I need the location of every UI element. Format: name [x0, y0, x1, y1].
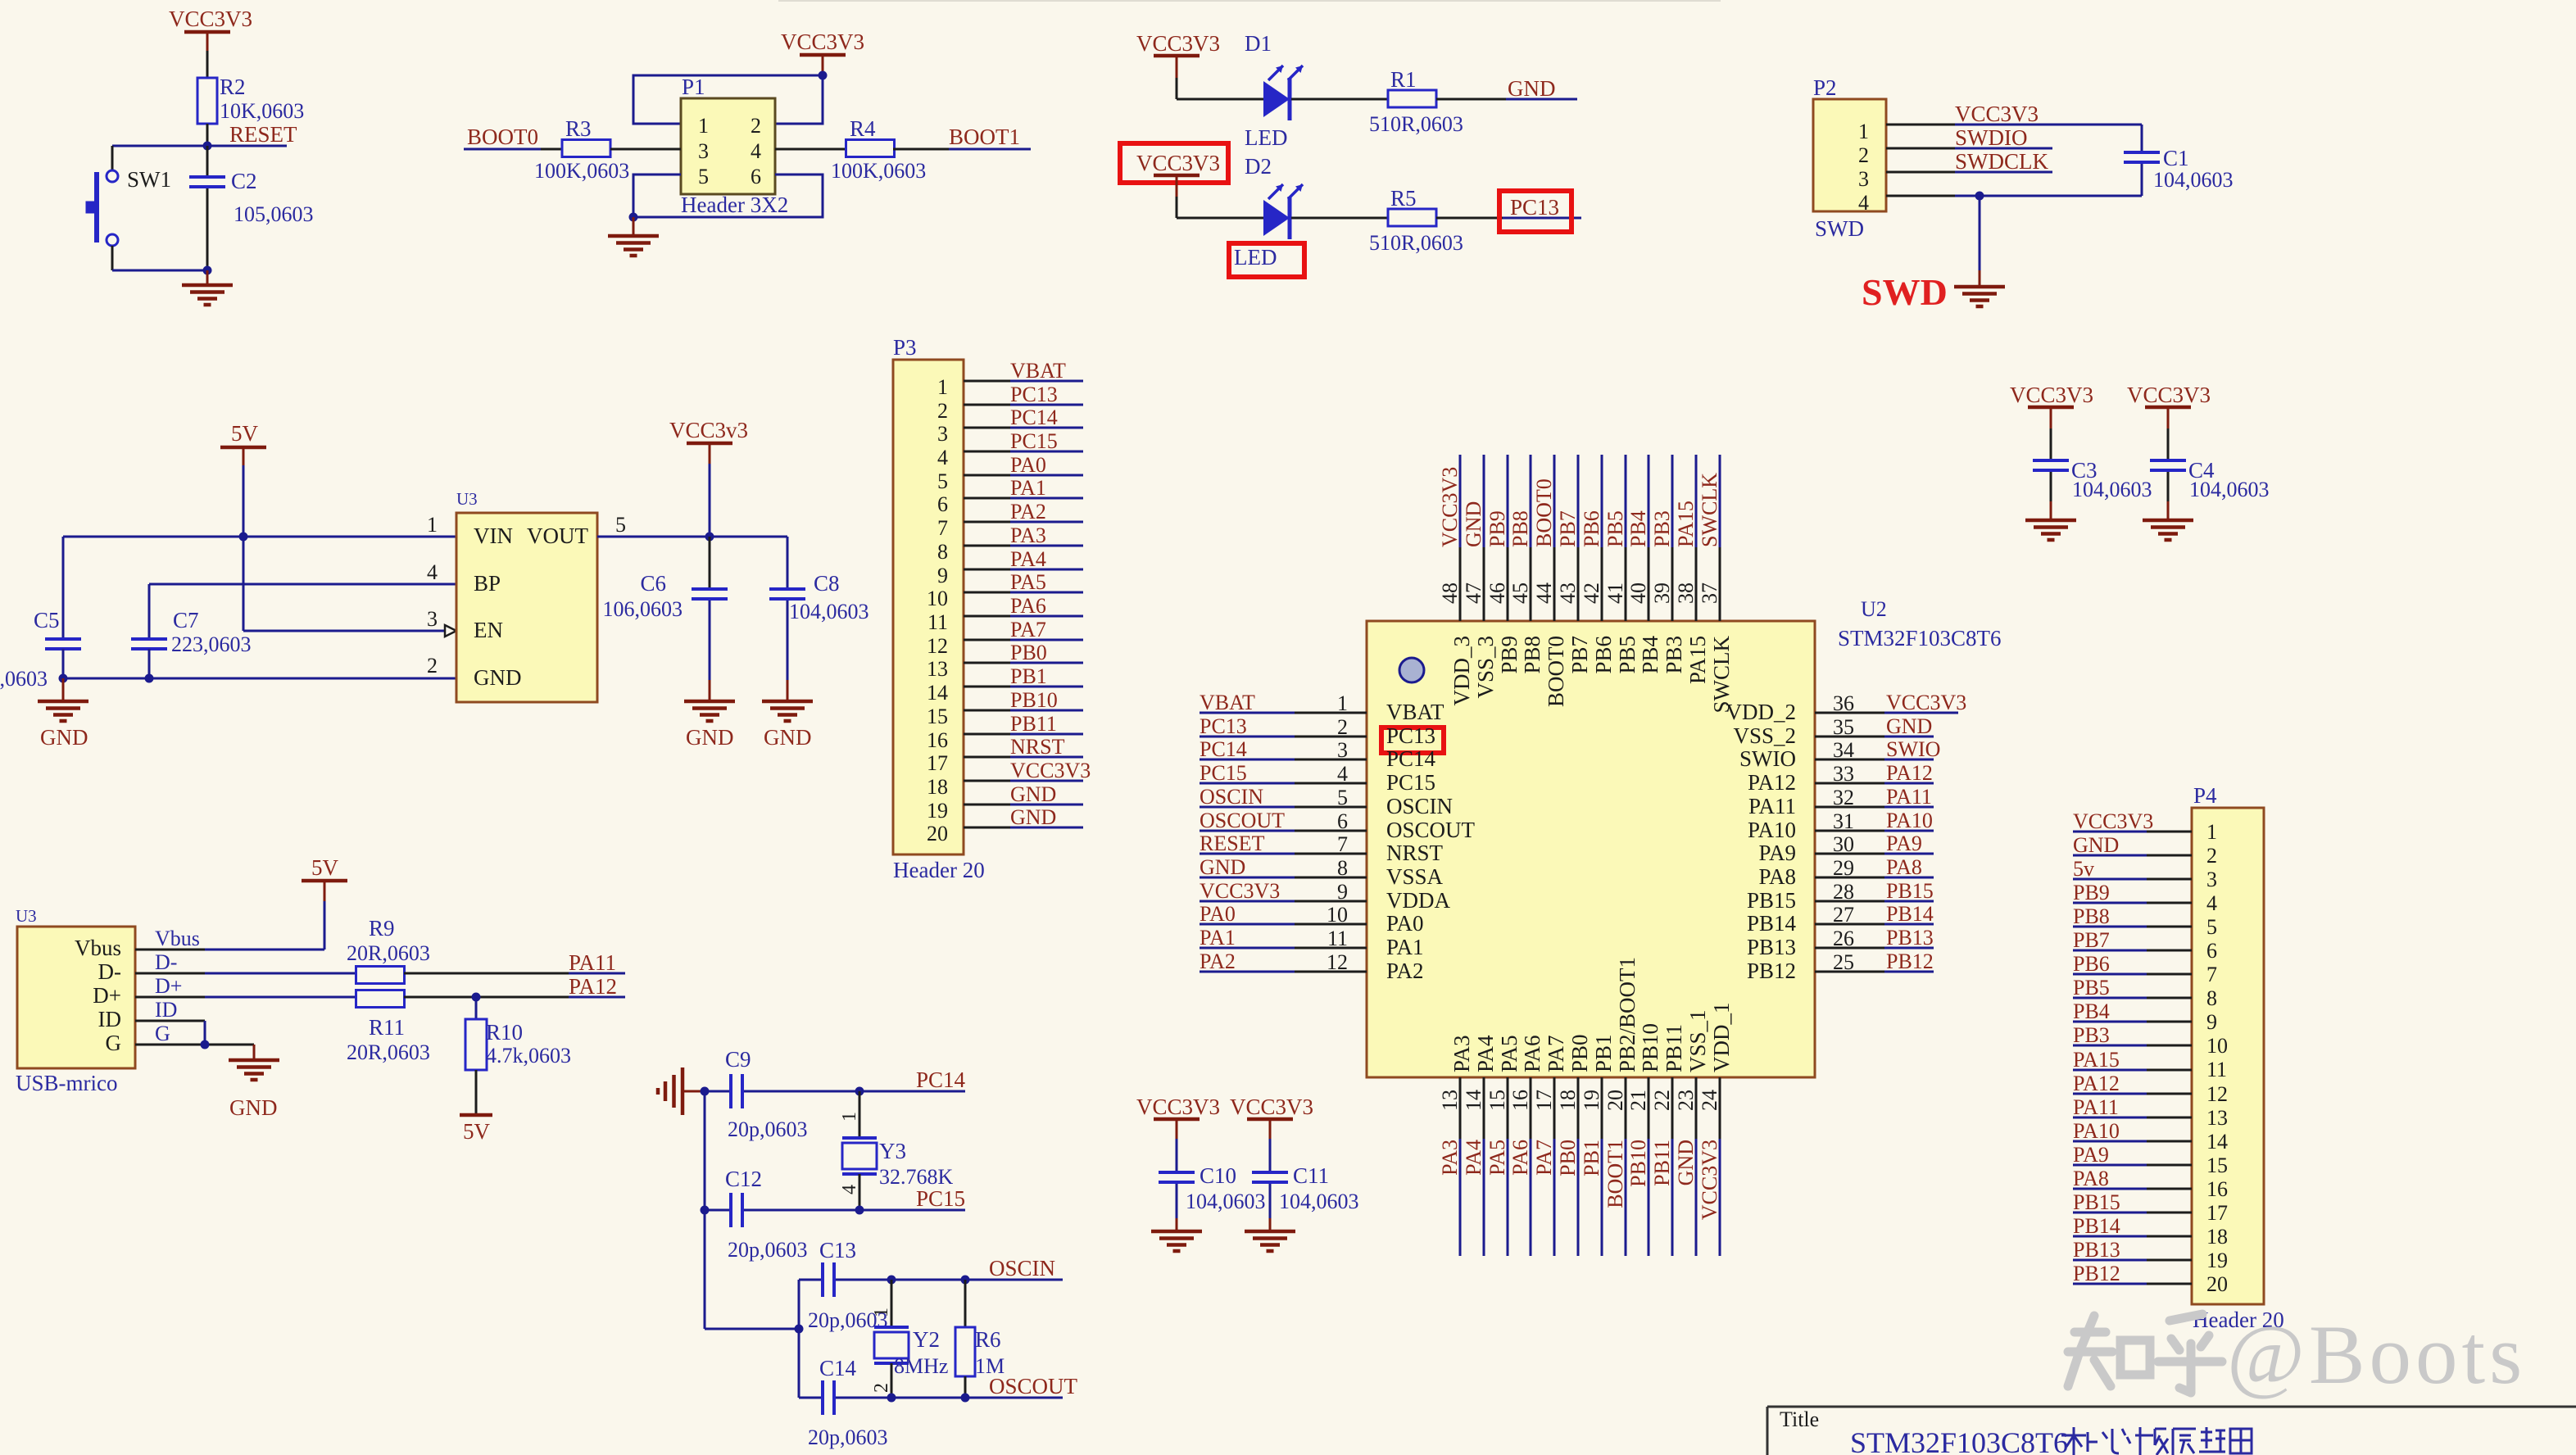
- regulator U3: [427, 489, 626, 702]
- svg-text:23: 23: [1674, 1090, 1698, 1111]
- capacitor C3: [2033, 428, 2152, 501]
- svg-text:PA12: PA12: [1748, 770, 1796, 795]
- svg-text:14: 14: [2206, 1130, 2228, 1154]
- svg-text:20: 20: [927, 822, 948, 845]
- wire P4 pin 18 PB14: [2073, 1235, 2192, 1238]
- svg-text:1: 1: [427, 513, 438, 537]
- power VCC3V3 (D1): [1136, 31, 1220, 78]
- wire RESET net: [112, 124, 287, 146]
- svg-text:18: 18: [1556, 1090, 1580, 1111]
- svg-text:3: 3: [1858, 167, 1869, 191]
- svg-text:3: 3: [937, 422, 948, 446]
- svg-text:PB5: PB5: [1603, 510, 1627, 547]
- svg-text:15: 15: [1485, 1090, 1509, 1111]
- junction P1 VCC: [819, 71, 828, 80]
- top artifact line: [778, 0, 1721, 2]
- wire U2 pin 11 PA1: [1200, 947, 1367, 950]
- power VCC3V3 (D2): [1136, 151, 1220, 197]
- svg-text:PA10: PA10: [2073, 1119, 2120, 1143]
- junction Y3 bottom: [855, 1206, 864, 1215]
- svg-text:R5: R5: [1390, 186, 1417, 211]
- svg-text:9: 9: [937, 564, 948, 587]
- wire U2 pin 44 BOOT0: [1553, 455, 1556, 621]
- MCU U2 (STM32F103C8T6) body: [1367, 597, 2002, 1077]
- wire D+ to R11: [135, 996, 356, 999]
- wire R3 to P1 pin3: [610, 148, 681, 151]
- wire U2 pin 38 PA15: [1695, 455, 1698, 621]
- wire U2 pin 25 PB12: [1815, 971, 1934, 973]
- svg-text:PB13: PB13: [2073, 1238, 2120, 1262]
- svg-text:NRST: NRST: [1386, 841, 1444, 865]
- svg-text:OSCOUT: OSCOUT: [1386, 818, 1476, 842]
- svg-text:PB7: PB7: [2073, 928, 2110, 952]
- svg-text:PB6: PB6: [1591, 636, 1616, 674]
- junction P2 GND: [1975, 192, 1984, 201]
- svg-text:PA7: PA7: [1532, 1140, 1556, 1176]
- svg-text:C5: C5: [34, 608, 60, 632]
- svg-text:VCC3V3: VCC3V3: [1698, 1140, 1721, 1220]
- wire P2 pin1 VCC3V3: [1886, 124, 2142, 126]
- wire U2 pin 33 PA12: [1815, 782, 1934, 785]
- LED D2: [1234, 154, 1303, 270]
- svg-text:PB13: PB13: [1747, 935, 1796, 959]
- svg-text:PB0: PB0: [1556, 1140, 1580, 1176]
- wire P3 pin 20 GND: [964, 827, 1083, 829]
- svg-text:2: 2: [427, 654, 438, 678]
- wire OSCOUT net: [799, 1397, 1063, 1399]
- svg-text:R3: R3: [565, 116, 592, 141]
- svg-text:105,0603: 105,0603: [234, 202, 314, 226]
- svg-text:PA7: PA7: [1010, 618, 1046, 641]
- wire U2 pin 48 VCC3V3: [1459, 455, 1462, 621]
- svg-text:20R,0603: 20R,0603: [347, 1040, 430, 1064]
- svg-text:3: 3: [698, 139, 709, 163]
- wire P4 pin 3 5v: [2073, 878, 2192, 881]
- wire U2 pin 34 SWIO: [1815, 759, 1934, 761]
- svg-text:SWCLK: SWCLK: [1709, 635, 1734, 713]
- svg-text:G: G: [106, 1031, 122, 1055]
- wire G to GND: [135, 1044, 254, 1046]
- ground (reset): [182, 270, 233, 305]
- wire P4 pin 14 PA10: [2073, 1140, 2192, 1143]
- svg-text:PA15: PA15: [1674, 501, 1698, 547]
- svg-text:32: 32: [1833, 786, 1854, 809]
- svg-text:PA7: PA7: [1544, 1035, 1568, 1072]
- svg-text:35: 35: [1833, 715, 1854, 739]
- svg-text:PB11: PB11: [1010, 712, 1057, 736]
- svg-text:12: 12: [1327, 950, 1348, 974]
- svg-text:USB-mrico: USB-mrico: [16, 1071, 118, 1095]
- svg-text:3: 3: [1337, 738, 1348, 762]
- svg-text:PA0: PA0: [1386, 911, 1424, 936]
- svg-text:C9: C9: [725, 1047, 751, 1072]
- svg-text:P1: P1: [682, 75, 705, 99]
- svg-text:LED: LED: [1234, 245, 1277, 270]
- wire U2 pin 42 PB6: [1601, 455, 1603, 621]
- junction VOUT: [705, 533, 714, 542]
- svg-text:R6: R6: [975, 1327, 1001, 1352]
- svg-text:43: 43: [1556, 582, 1580, 604]
- svg-text:19: 19: [2206, 1249, 2228, 1272]
- wire U2 pin 40 PB4: [1648, 455, 1650, 621]
- ground (C4): [2143, 501, 2193, 540]
- capacitor C7: [131, 608, 252, 678]
- svg-text:D+: D+: [155, 974, 182, 998]
- svg-text:12: 12: [2206, 1082, 2228, 1106]
- svg-text:PA0: PA0: [1200, 902, 1236, 926]
- svg-text:21: 21: [1626, 1090, 1650, 1111]
- svg-text:6: 6: [937, 492, 948, 516]
- svg-text:C12: C12: [725, 1167, 762, 1191]
- svg-text:BOOT0: BOOT0: [1544, 636, 1568, 707]
- svg-text:PB15: PB15: [1747, 888, 1796, 913]
- svg-text:VSS_2: VSS_2: [1733, 723, 1796, 748]
- svg-text:G: G: [155, 1022, 170, 1045]
- svg-text:BOOT0: BOOT0: [467, 125, 538, 149]
- power VCC3v3 (regulator): [669, 418, 748, 537]
- wire U2 pin 6 OSCOUT: [1200, 830, 1367, 832]
- capacitor C14: [808, 1356, 888, 1449]
- svg-text:PA8: PA8: [1886, 855, 1922, 879]
- connector U3 (USB-mrico): [16, 906, 135, 1095]
- svg-text:1: 1: [871, 1308, 892, 1317]
- svg-text:VCC3V3: VCC3V3: [781, 29, 864, 54]
- wire P2 pin4 GND: [1886, 195, 2142, 197]
- svg-text:VCC3V3: VCC3V3: [1136, 1095, 1220, 1119]
- junction P1 GND: [629, 213, 638, 222]
- svg-text:33: 33: [1833, 762, 1854, 786]
- power VCC3V3 (C11): [1230, 1095, 1313, 1139]
- power 5V (USB): [302, 855, 347, 901]
- junction C5 GND: [59, 674, 68, 683]
- svg-text:PB10: PB10: [1638, 1023, 1662, 1072]
- junction RESET: [203, 142, 212, 151]
- resistor R5: [1369, 186, 1463, 255]
- wire P1 pin4 to R4: [775, 148, 846, 151]
- svg-text:LED: LED: [1245, 125, 1287, 150]
- wire R9 to PA11: [404, 972, 625, 975]
- svg-text:GND: GND: [1674, 1140, 1698, 1185]
- svg-text:14: 14: [1462, 1090, 1485, 1111]
- wire R5 to PC13 label: [1436, 217, 1581, 220]
- svg-text:2: 2: [2206, 844, 2217, 868]
- wire U2 pin 30 PA9: [1815, 853, 1934, 855]
- wire P4 pin 6 PB7: [2073, 950, 2192, 952]
- resistor R10: [465, 997, 571, 1115]
- svg-text:22: 22: [1650, 1090, 1674, 1111]
- svg-text:3: 3: [2206, 868, 2217, 891]
- svg-text:2: 2: [871, 1383, 892, 1393]
- svg-text:U3: U3: [456, 489, 478, 509]
- svg-text:1: 1: [1337, 691, 1348, 715]
- wire GND net (regulator): [63, 678, 456, 680]
- svg-text:2: 2: [1858, 143, 1869, 167]
- wire U2 pin 24 VCC3V3: [1719, 1077, 1721, 1256]
- svg-text:PB5: PB5: [2073, 976, 2110, 999]
- svg-text:39: 39: [1650, 582, 1674, 604]
- svg-text:PA2: PA2: [1010, 500, 1046, 524]
- wire P4 pin 8 PB5: [2073, 997, 2192, 999]
- svg-text:PA11: PA11: [2073, 1095, 2119, 1119]
- svg-text:BP: BP: [474, 571, 501, 596]
- svg-text:VCC3V3: VCC3V3: [1230, 1095, 1313, 1119]
- ground (oscillator, left): [658, 1067, 705, 1115]
- svg-text:C14: C14: [819, 1356, 857, 1380]
- wire R11 to PA12: [404, 996, 625, 999]
- wire U2 pin 4 PC15: [1200, 782, 1367, 785]
- svg-text:8: 8: [2206, 986, 2217, 1010]
- svg-text:PA10: PA10: [1886, 809, 1933, 832]
- svg-text:4: 4: [839, 1185, 860, 1194]
- wire P3 pin 7 PA2: [964, 521, 1083, 524]
- svg-text:C8: C8: [814, 571, 840, 596]
- svg-text:7: 7: [2206, 963, 2217, 986]
- wire P3 pin 1 VBAT: [964, 380, 1083, 383]
- annotation box LED: [1229, 243, 1304, 277]
- svg-text:PA12: PA12: [1886, 761, 1933, 785]
- wire U2 pin 32 PA11: [1815, 806, 1934, 809]
- svg-text:OSCIN: OSCIN: [989, 1256, 1055, 1280]
- wire D1 to R1: [1291, 98, 1388, 101]
- svg-text:PA3: PA3: [1010, 524, 1046, 547]
- svg-text:EN: EN: [474, 618, 503, 642]
- wire D- to R9: [135, 972, 356, 975]
- svg-text:VCC3V3: VCC3V3: [2073, 809, 2153, 833]
- svg-text:PB1: PB1: [1010, 664, 1047, 688]
- svg-text:1: 1: [698, 114, 709, 138]
- wire U2 pin 14 PA4: [1483, 1077, 1485, 1256]
- svg-text:GND: GND: [229, 1095, 278, 1120]
- wire PC14 net: [705, 1090, 965, 1093]
- svg-text:VBAT: VBAT: [1386, 700, 1444, 724]
- svg-text:VCC3V3: VCC3V3: [169, 7, 252, 31]
- wire PC15 net: [705, 1209, 965, 1212]
- svg-text:4: 4: [1337, 762, 1348, 786]
- title block frame: [1767, 1407, 2576, 1455]
- svg-text:GND: GND: [1886, 714, 1932, 738]
- wire P4 pin 11 PA15: [2073, 1069, 2192, 1072]
- svg-text:18: 18: [2206, 1225, 2228, 1249]
- svg-text:VCC3V3: VCC3V3: [2010, 383, 2093, 407]
- svg-text:U3: U3: [16, 906, 37, 926]
- svg-text:PB8: PB8: [1520, 636, 1544, 674]
- svg-text:PB6: PB6: [2073, 952, 2110, 976]
- svg-text:P4: P4: [2193, 783, 2217, 808]
- svg-text:4: 4: [1858, 191, 1869, 215]
- junction D+ R10: [472, 993, 481, 1002]
- svg-text:BOOT0: BOOT0: [1532, 478, 1556, 547]
- svg-text:PB3: PB3: [2073, 1023, 2110, 1047]
- wire P4 pin 16 PA8: [2073, 1188, 2192, 1190]
- svg-text:4: 4: [751, 139, 761, 163]
- svg-text:ID: ID: [155, 998, 177, 1022]
- svg-text:OSCOUT: OSCOUT: [989, 1374, 1078, 1398]
- svg-text:11: 11: [2206, 1058, 2227, 1081]
- svg-text:D+: D+: [93, 983, 121, 1008]
- wire U2 pin 23 GND: [1695, 1077, 1698, 1256]
- svg-text:42: 42: [1580, 582, 1603, 604]
- svg-text:PC13: PC13: [1386, 723, 1435, 748]
- header P1 (Header 3X2): [681, 75, 788, 217]
- svg-text:GND: GND: [1010, 805, 1056, 829]
- svg-text:PB12: PB12: [1886, 950, 1934, 973]
- wire U2 pin 47 GND: [1483, 455, 1485, 621]
- junction Y2 top: [887, 1276, 896, 1285]
- svg-text:PB14: PB14: [2073, 1214, 2120, 1238]
- svg-text:15: 15: [2206, 1154, 2228, 1177]
- svg-text:VSSA: VSSA: [1386, 864, 1444, 889]
- wire P3 pin 18 VCC3V3: [964, 780, 1083, 782]
- wire U2 pin 1 VBAT: [1200, 712, 1367, 714]
- svg-text:P2: P2: [1813, 75, 1837, 100]
- capacitor C13: [808, 1238, 888, 1332]
- svg-text:PC13: PC13: [1200, 714, 1247, 738]
- wire P4 pin 1 VCC3V3: [2073, 831, 2192, 833]
- power VCC3V3 (P1): [781, 29, 864, 74]
- capacitor C6: [603, 537, 728, 680]
- power VCC3V3 (C4): [2127, 383, 2211, 428]
- svg-text:PA6: PA6: [1520, 1035, 1544, 1072]
- svg-text:45: 45: [1508, 582, 1532, 604]
- svg-text:16: 16: [927, 728, 948, 752]
- svg-text:PA1: PA1: [1200, 926, 1236, 950]
- wire EN net: [243, 537, 456, 637]
- svg-text:PB9: PB9: [1497, 636, 1522, 674]
- svg-text:PA6: PA6: [1010, 594, 1046, 618]
- svg-text:17: 17: [927, 751, 948, 775]
- junction ID-G: [201, 1040, 210, 1049]
- wire SW1 bottom: [112, 270, 207, 272]
- svg-text:17: 17: [1532, 1090, 1556, 1111]
- wire P3 pin 6 PA1: [964, 497, 1083, 500]
- svg-text:STM32F103C8T6: STM32F103C8T6: [1838, 626, 2002, 650]
- junction 5V VIN: [239, 533, 248, 542]
- wire D2 to R5: [1291, 217, 1388, 220]
- svg-text:31: 31: [1833, 809, 1854, 833]
- wire P4 pin 20 PB12: [2073, 1283, 2192, 1285]
- capacitor C2: [189, 146, 314, 270]
- svg-text:PB14: PB14: [1747, 911, 1797, 936]
- svg-text:12: 12: [927, 634, 948, 658]
- svg-text:13: 13: [927, 657, 948, 681]
- wire U2 pin 43 PB7: [1577, 455, 1580, 621]
- svg-text:R9: R9: [369, 916, 395, 941]
- svg-text:PC13: PC13: [1010, 383, 1058, 406]
- svg-text:PA6: PA6: [1508, 1140, 1532, 1176]
- wire P4 pin 12 PA12: [2073, 1093, 2192, 1095]
- svg-text:SWD: SWD: [1815, 216, 1864, 241]
- svg-text:5V: 5V: [463, 1119, 491, 1144]
- svg-text:1: 1: [2206, 820, 2217, 844]
- svg-text:C1: C1: [2163, 146, 2189, 170]
- svg-text:104,0603: 104,0603: [1279, 1190, 1359, 1213]
- ground (C6): [684, 680, 735, 750]
- wire U2 pin 20 BOOT1: [1625, 1077, 1627, 1256]
- wire P4 pin 10 PB3: [2073, 1045, 2192, 1047]
- wire P3 pin 2 PC13: [964, 404, 1083, 406]
- svg-text:Y3: Y3: [879, 1139, 906, 1163]
- resistor R4: [831, 116, 926, 183]
- svg-text:PB9: PB9: [2073, 881, 2110, 904]
- svg-text:PA5: PA5: [1010, 570, 1046, 594]
- svg-text:D1: D1: [1245, 31, 1272, 56]
- wire U2 pin 45 PB8: [1530, 455, 1532, 621]
- wire U2 pin 36 VCC3V3: [1815, 712, 1958, 714]
- svg-text:PA10: PA10: [1748, 818, 1796, 842]
- svg-text:20p,0603: 20p,0603: [808, 1426, 888, 1449]
- svg-text:PA2: PA2: [1200, 950, 1236, 973]
- svg-text:5: 5: [698, 165, 709, 188]
- svg-text:Vbus: Vbus: [75, 936, 121, 960]
- svg-text:19: 19: [927, 799, 948, 823]
- svg-text:PB4: PB4: [2073, 999, 2110, 1023]
- svg-text:15: 15: [927, 705, 948, 728]
- power 5V (regulator): [220, 421, 266, 465]
- wire U2 pin 41 PB5: [1625, 455, 1627, 621]
- svg-text:510R,0603: 510R,0603: [1369, 231, 1463, 255]
- svg-text:40: 40: [1626, 582, 1650, 604]
- capacitor C8: [769, 537, 869, 680]
- svg-text:223,0603: 223,0603: [171, 632, 252, 656]
- wire P3 pin 9 PA4: [964, 569, 1083, 571]
- svg-text:VCC3V3: VCC3V3: [1136, 31, 1220, 56]
- svg-text:104,0603: 104,0603: [1186, 1190, 1266, 1213]
- svg-text:PC14: PC14: [1200, 737, 1247, 761]
- svg-text:PC15: PC15: [916, 1186, 965, 1211]
- svg-text:PA11: PA11: [1886, 785, 1932, 809]
- wire P1 bottom loop: [633, 175, 823, 217]
- svg-text:11: 11: [1327, 927, 1348, 950]
- wire P3 pin 5 PA0: [964, 474, 1083, 477]
- svg-text:C7: C7: [173, 608, 199, 632]
- wire U2 pin 37 SWCLK: [1719, 455, 1721, 621]
- svg-text:PB7: PB7: [1567, 636, 1592, 674]
- wire P4 pin 17 PB15: [2073, 1212, 2192, 1214]
- svg-text:Vbus: Vbus: [155, 927, 200, 950]
- wire VOUT VCC3v3: [597, 536, 787, 538]
- wire U2 pin 17 PA7: [1553, 1077, 1556, 1256]
- svg-text:PB3: PB3: [1662, 636, 1686, 674]
- svg-text:PA8: PA8: [2073, 1167, 2109, 1190]
- junction Y3 top: [855, 1087, 864, 1096]
- svg-text:6: 6: [751, 165, 761, 188]
- svg-text:C13: C13: [819, 1238, 856, 1262]
- svg-text:27: 27: [1833, 903, 1854, 927]
- annotation box PC13 (U2 pin 2): [1381, 727, 1444, 753]
- junction R6 bottom: [961, 1394, 970, 1403]
- svg-text:2: 2: [751, 114, 761, 138]
- resistor R9: [347, 916, 430, 984]
- capacitor C1: [2124, 125, 2234, 196]
- svg-text:VCC3V3: VCC3V3: [1438, 467, 1462, 547]
- power VCC3V3 (C10): [1136, 1095, 1220, 1139]
- svg-text:41: 41: [1603, 582, 1627, 604]
- wire P4 pin 2 GND: [2073, 854, 2192, 857]
- svg-text:PA9: PA9: [1758, 841, 1796, 865]
- svg-text:GND: GND: [1508, 76, 1556, 101]
- ground (C5): [38, 678, 88, 750]
- svg-text:16: 16: [2206, 1177, 2228, 1201]
- svg-text:32.768K: 32.768K: [879, 1165, 954, 1189]
- wire U2 pin 21 PB10: [1648, 1077, 1650, 1256]
- svg-text:GND: GND: [2073, 833, 2119, 857]
- wire BP net: [149, 584, 456, 639]
- svg-text:8: 8: [1337, 856, 1348, 880]
- svg-text:4: 4: [937, 446, 948, 469]
- wire U2 pin 27 PB14: [1815, 923, 1934, 926]
- svg-text:PB4: PB4: [1626, 510, 1650, 547]
- svg-text:4.7k,0603: 4.7k,0603: [486, 1044, 571, 1067]
